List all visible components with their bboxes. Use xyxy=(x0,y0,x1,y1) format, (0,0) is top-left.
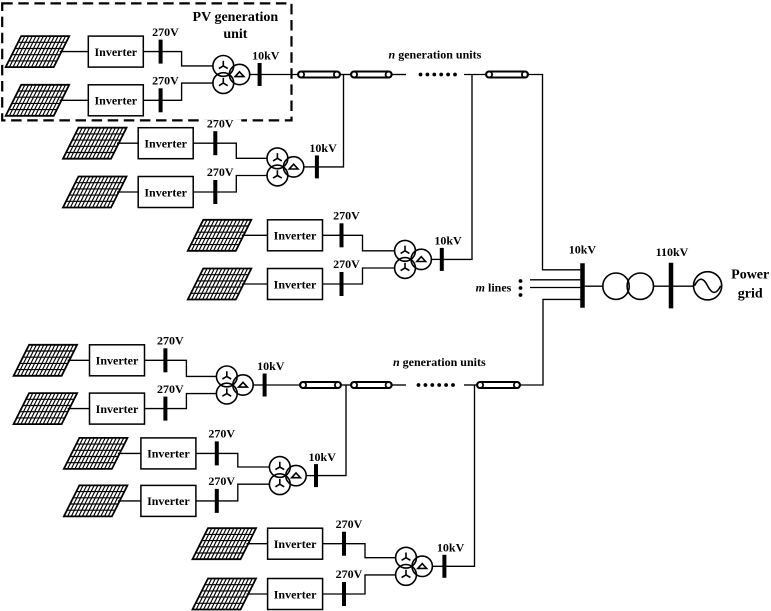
wire B2: inverter 1 to transformer winding 1 xyxy=(196,453,270,467)
10kV busbar B3 xyxy=(442,555,446,578)
svg-text:Inverter: Inverter xyxy=(274,537,317,551)
wire: bus to main transformer xyxy=(585,285,603,287)
svg-text:270V: 270V xyxy=(152,25,179,39)
three-winding transformer B3 (Y-Y-Delta) xyxy=(396,547,433,585)
wire: transformer to 110kV busbar xyxy=(654,285,672,287)
PV panel B1.1 xyxy=(14,345,78,376)
270V busbar T3.1 xyxy=(340,223,344,247)
feeder line segment top 1 xyxy=(298,72,340,78)
wire T1: panel 2 to inverter 2 xyxy=(60,99,89,101)
PV panel B1.2 xyxy=(14,393,78,424)
inverter B1.2 xyxy=(90,393,145,424)
three-winding transformer T3 (Y-Y-Delta) xyxy=(395,240,432,278)
wire B3: transformer to 10kV busbar xyxy=(432,565,444,567)
svg-text:10kV: 10kV xyxy=(434,234,462,248)
svg-text:10kV: 10kV xyxy=(569,243,597,257)
main 10kV collector busbar xyxy=(580,263,585,308)
svg-text:grid: grid xyxy=(738,286,763,301)
wire: feeder to main trunk xyxy=(528,75,580,270)
270V busbar B3.2 xyxy=(342,582,346,606)
270V busbar B1.1 xyxy=(163,348,167,372)
two-winding main transformer xyxy=(603,273,654,299)
svg-text:270V: 270V xyxy=(207,165,234,179)
svg-text:Inverter: Inverter xyxy=(274,277,317,291)
wire B1: inverter 2 to transformer winding 2 xyxy=(145,394,217,409)
270V busbar T1.2 xyxy=(159,88,163,112)
svg-text:n generation units: n generation units xyxy=(389,48,482,62)
270V busbar T3.2 xyxy=(340,272,344,296)
three-winding transformer T1 (Y-Y-Delta) xyxy=(213,56,250,94)
svg-text:10kV: 10kV xyxy=(309,141,337,155)
svg-text:270V: 270V xyxy=(333,209,360,223)
wire T1: inverter 2 to transformer winding 2 xyxy=(143,83,213,100)
wire with junction to unit B3 xyxy=(464,384,477,386)
svg-text:PV generation: PV generation xyxy=(193,10,279,25)
inverter B2.2 xyxy=(141,485,196,516)
inverter T1.2 xyxy=(88,85,143,116)
feeder line segment bottom 3 xyxy=(477,382,520,388)
wire B2: panel 2 to inverter 2 xyxy=(118,500,141,502)
wire T3: inverter 2 to transformer winding 2 xyxy=(323,268,395,284)
ellipsis dots (bottom feeder continuation) xyxy=(417,383,455,387)
svg-text:Inverter: Inverter xyxy=(144,185,187,199)
wire: unit B1 output to feeder xyxy=(265,384,300,386)
PV panel T3.1 xyxy=(188,220,252,251)
wire: unit T1 output to feeder xyxy=(260,74,298,76)
10kV busbar T2 xyxy=(315,155,319,178)
10kV busbar T1 xyxy=(258,63,262,86)
wire B1: panel 2 to inverter 2 xyxy=(68,408,90,410)
ellipsis dots (top feeder continuation) xyxy=(419,73,457,77)
inverter T3.1 xyxy=(268,220,323,251)
svg-text:Inverter: Inverter xyxy=(274,229,317,243)
PV panel B2.2 xyxy=(64,485,128,516)
wire T3: panel 1 to inverter 1 xyxy=(242,234,268,236)
wire B2: inverter 2 to transformer winding 2 xyxy=(196,484,270,501)
dashed boundary of PV generation unit xyxy=(2,3,291,120)
wire between segments with junction to unit T2 xyxy=(340,74,351,76)
label: PV generation unit (title) xyxy=(193,10,279,42)
wire: feeder to main trunk xyxy=(520,299,580,385)
svg-text:Power: Power xyxy=(731,267,769,282)
PV panel B2.1 xyxy=(64,438,128,469)
svg-text:10kV: 10kV xyxy=(257,359,285,373)
svg-text:Inverter: Inverter xyxy=(94,45,137,59)
270V busbar T2.1 xyxy=(213,131,217,155)
feeder line segment bottom 1 xyxy=(300,382,341,388)
270V busbar B3.1 xyxy=(342,532,346,556)
power grid source symbol xyxy=(694,272,722,300)
wire between segments with junction to unit B2 xyxy=(341,384,351,386)
wire: riser from unit T3 xyxy=(442,75,472,260)
wire B2: panel 1 to inverter 1 xyxy=(118,452,141,454)
wire: riser from unit B3 xyxy=(444,385,474,566)
feeder line segment top 2 xyxy=(351,72,392,78)
svg-text:270V: 270V xyxy=(207,116,234,130)
270V busbar T1.1 xyxy=(159,40,163,64)
wire T1: inverter 1 to transformer winding 1 xyxy=(143,52,213,66)
wire B3: panel 1 to inverter 1 xyxy=(247,543,268,545)
svg-text:10kV: 10kV xyxy=(309,450,337,464)
wire: riser from unit T2 xyxy=(317,75,344,167)
svg-text:Inverter: Inverter xyxy=(94,94,137,108)
svg-text:Inverter: Inverter xyxy=(96,402,139,416)
svg-text:270V: 270V xyxy=(157,334,184,348)
10kV busbar B2 xyxy=(314,464,318,487)
svg-text:m lines: m lines xyxy=(476,280,512,294)
svg-text:10kV: 10kV xyxy=(437,541,465,555)
wire with junction to unit T3 xyxy=(464,74,486,76)
svg-text:Inverter: Inverter xyxy=(147,447,190,461)
wire T3: panel 2 to inverter 2 xyxy=(242,283,268,285)
270V busbar T2.2 xyxy=(213,180,217,204)
PV panel T1.2 xyxy=(6,85,69,116)
svg-text:n generation units: n generation units xyxy=(393,355,486,369)
svg-text:10kV: 10kV xyxy=(252,49,280,63)
wire B2: transformer to 10kV busbar xyxy=(306,475,316,477)
10kV busbar B1 xyxy=(263,374,267,397)
wire B3: inverter 2 to transformer winding 2 xyxy=(323,575,396,594)
svg-text:270V: 270V xyxy=(208,427,235,441)
inverter B3.2 xyxy=(268,579,323,610)
inverter T3.2 xyxy=(268,269,323,300)
svg-text:270V: 270V xyxy=(208,474,235,488)
PV panel T1.1 xyxy=(6,36,69,67)
270V busbar B2.2 xyxy=(215,489,219,513)
PV panel T2.1 xyxy=(63,128,127,159)
wire T2: transformer to 10kV busbar xyxy=(304,166,317,168)
svg-text:270V: 270V xyxy=(336,567,363,581)
270V busbar B1.2 xyxy=(163,397,167,421)
svg-text:270V: 270V xyxy=(157,382,184,396)
three-winding transformer B2 (Y-Y-Delta) xyxy=(269,457,306,495)
feeder line segment top 3 xyxy=(486,72,528,78)
wire B3: panel 2 to inverter 2 xyxy=(247,593,268,595)
wire B1: transformer to 10kV busbar xyxy=(253,384,264,386)
wire T1: transformer to 10kV busbar xyxy=(250,74,260,76)
inverter T1.1 xyxy=(88,36,143,67)
PV panel B3.2 xyxy=(193,579,257,610)
svg-text:Inverter: Inverter xyxy=(274,587,317,601)
wire B1: inverter 1 to transformer winding 1 xyxy=(145,360,217,376)
10kV busbar T3 xyxy=(440,248,444,271)
wire xyxy=(392,74,406,76)
wire: riser from unit B2 xyxy=(316,385,346,476)
inverter B3.1 xyxy=(268,528,323,559)
label: Power grid xyxy=(731,267,769,301)
PV panel B3.1 xyxy=(193,528,257,559)
wire T3: transformer to 10kV busbar xyxy=(431,258,441,260)
inverter T2.1 xyxy=(138,128,193,159)
svg-text:Inverter: Inverter xyxy=(96,354,139,368)
svg-text:Inverter: Inverter xyxy=(147,494,190,508)
wire T2: panel 2 to inverter 2 xyxy=(117,191,138,193)
svg-text:110kV: 110kV xyxy=(656,245,689,259)
wire xyxy=(392,384,406,386)
vertical ellipsis dots (m lines) xyxy=(519,279,523,297)
wire T2: inverter 2 to transformer winding 2 xyxy=(193,176,267,193)
feeder line segment bottom 2 xyxy=(351,382,392,388)
wire T2: panel 1 to inverter 1 xyxy=(117,142,138,144)
svg-text:Inverter: Inverter xyxy=(144,137,187,151)
three-winding transformer T2 (Y-Y-Delta) xyxy=(267,148,304,186)
wire B3: inverter 1 to transformer winding 1 xyxy=(323,544,396,558)
110kV busbar xyxy=(669,263,674,309)
three-winding transformer B1 (Y-Y-Delta) xyxy=(216,366,253,404)
wire: 110kV busbar to power grid xyxy=(671,285,694,287)
svg-text:270V: 270V xyxy=(333,257,360,271)
inverter T2.2 xyxy=(138,177,193,208)
wire B1: panel 1 to inverter 1 xyxy=(68,359,90,361)
inverter B1.1 xyxy=(90,345,145,376)
inverter B2.1 xyxy=(141,438,196,469)
PV panel T2.2 xyxy=(63,177,127,208)
wire T1: panel 1 to inverter 1 xyxy=(60,51,89,53)
PV panel T3.2 xyxy=(188,269,252,300)
svg-text:unit: unit xyxy=(223,27,247,42)
270V busbar B2.1 xyxy=(215,441,219,465)
wire T2: inverter 1 to transformer winding 1 xyxy=(193,143,267,158)
svg-text:270V: 270V xyxy=(336,517,363,531)
wire T3: inverter 1 to transformer winding 1 xyxy=(323,235,395,251)
m lines (collector feeders) xyxy=(530,280,580,288)
svg-text:270V: 270V xyxy=(152,74,179,88)
